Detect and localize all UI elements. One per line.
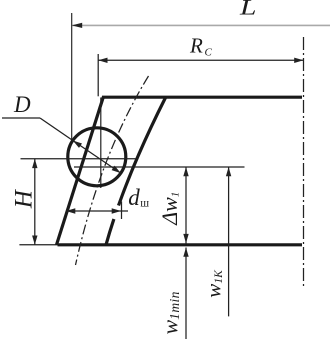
- svg-text:C: C: [205, 47, 213, 59]
- svg-text:L: L: [239, 0, 257, 20]
- svg-text:H: H: [11, 188, 38, 209]
- svg-text:R: R: [189, 34, 203, 58]
- svg-text:D: D: [13, 92, 31, 117]
- svg-text:ш: ш: [140, 197, 149, 209]
- svg-text:d: d: [128, 185, 140, 210]
